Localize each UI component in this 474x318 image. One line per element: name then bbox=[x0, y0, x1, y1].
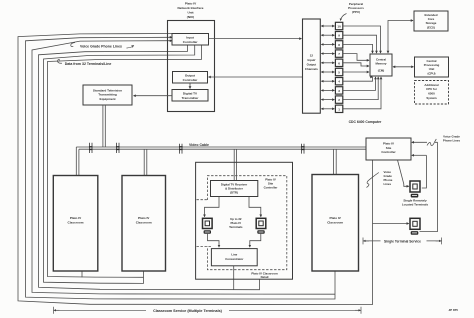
wire phone line 5 (classroom 2 return) bbox=[44, 45, 195, 283]
wire P6 to CM left bbox=[343, 63, 369, 66]
svg-text:Memory: Memory bbox=[375, 62, 386, 66]
squiggle phone line (left of terminals) bbox=[367, 173, 379, 188]
svg-text:CPU for: CPU for bbox=[426, 87, 438, 91]
box 12 input/output channels bbox=[303, 19, 321, 113]
wire IO to P6 bbox=[321, 62, 334, 64]
svg-text:JP 875: JP 875 bbox=[449, 308, 459, 312]
svg-text:System: System bbox=[426, 96, 437, 100]
svg-text:Detail: Detail bbox=[261, 275, 269, 279]
svg-text:3: 3 bbox=[338, 89, 340, 93]
terminal icon right (classroom) bbox=[256, 218, 266, 233]
box classroom detail outer bbox=[196, 162, 293, 279]
wire IO to P9 bbox=[321, 34, 334, 36]
svg-text:Classroom: Classroom bbox=[327, 221, 343, 225]
svg-text:Video Cable: Video Cable bbox=[189, 143, 209, 147]
wire IO to P10 bbox=[321, 25, 334, 27]
node label: Voice Grade Phone Lines (top right) bbox=[443, 135, 461, 143]
svg-text:Transmitter: Transmitter bbox=[182, 96, 200, 100]
node label: JP 875 bbox=[449, 308, 459, 312]
wire DTR to left terminal bbox=[205, 197, 220, 217]
svg-text:(ECS): (ECS) bbox=[427, 26, 435, 30]
terminal icon A (single remote) bbox=[410, 181, 420, 198]
node label: Peripheral Processors (PPU) bbox=[348, 2, 364, 14]
wire cable drop to DTR bbox=[234, 149, 236, 180]
wire IO to P4 bbox=[321, 80, 334, 82]
processor P2 bbox=[335, 96, 342, 103]
svg-text:Plato IV: Plato IV bbox=[70, 216, 82, 220]
svg-text:9: 9 bbox=[338, 34, 340, 38]
box site controller dashed (classroom detail) bbox=[207, 176, 286, 270]
svg-text:Controller: Controller bbox=[183, 78, 199, 82]
box additional CPU for 6500 (dashed) bbox=[415, 81, 449, 105]
wire P5 to CM left bbox=[343, 71, 369, 73]
wire phone line 1 (outermost loop: site controller to NIU input controller) bbox=[18, 34, 373, 305]
svg-text:Classroom Service (Multiple: Classroom Service (Multiple Terminals) bbox=[153, 309, 223, 313]
svg-text:Channels: Channels bbox=[305, 67, 318, 71]
box central memory CM bbox=[370, 54, 392, 76]
wire P3 to CM bottom bbox=[343, 77, 376, 90]
svg-text:Lines: Lines bbox=[384, 182, 392, 186]
wire IO to P2 bbox=[321, 99, 334, 101]
processor P9 bbox=[335, 32, 342, 39]
box digital TV receiver DTR bbox=[211, 181, 258, 197]
box line concentrator bbox=[211, 249, 257, 266]
wire IO to P5 bbox=[321, 71, 334, 73]
wire phone line 2 (classroom 3 return) bbox=[26, 37, 336, 299]
svg-text:Concentrator: Concentrator bbox=[225, 257, 244, 261]
box input controller U1 bbox=[172, 34, 209, 46]
wire TV equipment down to video cable (coax pair) bbox=[103, 105, 105, 147]
svg-text:Plato IV: Plato IV bbox=[185, 2, 197, 6]
wire terminal A return to site controller bbox=[412, 154, 427, 156]
svg-text:(CPU): (CPU) bbox=[427, 72, 435, 76]
wire PPU label arrow bbox=[341, 14, 347, 21]
node label: Up to 32 Plato IV Terminals bbox=[229, 217, 243, 229]
wire CM to ECS bbox=[388, 21, 413, 54]
terminal icon left (classroom) bbox=[203, 218, 213, 233]
svg-text:Unit: Unit bbox=[187, 11, 193, 15]
wire IO channels to output controller bbox=[209, 76, 303, 78]
node label: Single Remotely Located Terminals bbox=[402, 199, 429, 207]
svg-text:Data from 32 Terminals/Line: Data from 32 Terminals/Line bbox=[65, 62, 112, 66]
svg-text:Controller: Controller bbox=[264, 186, 279, 190]
node label: Video Cable bbox=[189, 143, 209, 147]
NIU outer box bbox=[168, 21, 215, 112]
svg-text:2: 2 bbox=[338, 98, 340, 102]
svg-text:(NIU): (NIU) bbox=[187, 15, 194, 19]
box classroom 1 bbox=[53, 176, 98, 272]
processor P5 bbox=[335, 68, 342, 75]
box digital TV transmitter U3 bbox=[172, 90, 208, 102]
processor P1 bbox=[335, 105, 342, 112]
processor P4 bbox=[335, 78, 342, 85]
svg-text:10: 10 bbox=[337, 25, 341, 29]
svg-text:Unit: Unit bbox=[429, 67, 435, 71]
svg-text:Terminals: Terminals bbox=[229, 225, 243, 229]
wire IO to P8 bbox=[321, 43, 334, 45]
svg-text:6: 6 bbox=[338, 61, 340, 65]
box classroom 2 bbox=[122, 176, 166, 272]
svg-text:Plato IV: Plato IV bbox=[330, 216, 342, 220]
box output controller U2 bbox=[173, 72, 208, 84]
svg-text:Located Terminals: Located Terminals bbox=[402, 203, 429, 207]
svg-text:CDC 6400 Computer: CDC 6400 Computer bbox=[349, 120, 382, 124]
svg-text:Network Interface: Network Interface bbox=[178, 6, 204, 10]
wire cable drop to classroom 2 bbox=[144, 149, 147, 175]
processor P8 bbox=[335, 41, 342, 48]
box central processing unit CPU bbox=[415, 57, 449, 77]
box site controller (single terminals) bbox=[366, 138, 411, 160]
svg-text:5: 5 bbox=[338, 71, 340, 75]
svg-text:Phone Lines: Phone Lines bbox=[443, 139, 461, 143]
wire right terminal to line concentrator bbox=[250, 234, 261, 247]
wire IO to P3 bbox=[321, 89, 334, 91]
wire CM to CPU bbox=[393, 66, 414, 68]
svg-text:12: 12 bbox=[310, 54, 314, 58]
wire input controller to IO channels bbox=[209, 38, 302, 40]
terminal icon B (single remote) bbox=[410, 218, 420, 235]
svg-text:Equipment: Equipment bbox=[100, 97, 116, 101]
wire classroom 1 drop bbox=[81, 271, 83, 277]
wire line concentrator drop bbox=[233, 266, 235, 290]
processor P7 bbox=[335, 50, 342, 57]
svg-text:(CM): (CM) bbox=[378, 69, 384, 73]
svg-text:Input/: Input/ bbox=[307, 58, 315, 62]
box extended core storage ECS bbox=[414, 11, 448, 31]
svg-text:8: 8 bbox=[338, 43, 340, 47]
svg-text:6500: 6500 bbox=[428, 92, 435, 96]
node label: Plato IV Site Controller (detail) bbox=[264, 178, 279, 190]
wire left terminal to line concentrator bbox=[208, 234, 220, 247]
svg-text:Classroom: Classroom bbox=[68, 221, 84, 225]
wire cable drop to classroom 1 bbox=[76, 147, 79, 176]
wire site controller to terminal A (diagonal phone line) bbox=[398, 160, 409, 186]
node label: Data from 32 Terminals/Line bbox=[65, 62, 112, 66]
wire phone line 4 (classroom detail return) bbox=[39, 45, 260, 290]
svg-text:Storage: Storage bbox=[426, 21, 437, 25]
node label: Voice Grade Phone Lines (vertical stack) bbox=[384, 170, 393, 186]
wire output controller to digital TV bbox=[189, 83, 191, 89]
processor P10 bbox=[335, 22, 342, 29]
wire DTR to right terminal bbox=[249, 197, 261, 217]
wire terminal B return to site controller (phone line) bbox=[412, 141, 438, 143]
wire P2 to CM bottom bbox=[343, 77, 378, 100]
squiggle phone line (top right) bbox=[427, 139, 436, 146]
svg-text:Classroom: Classroom bbox=[136, 221, 152, 225]
node label: Voice Grade Phone Lines (top left) bbox=[80, 44, 122, 48]
processor P6 bbox=[335, 59, 342, 66]
wire digital TV transmitter to TV equipment bbox=[134, 95, 172, 97]
svg-text:(PPU): (PPU) bbox=[352, 10, 360, 14]
svg-text:Plato IV: Plato IV bbox=[138, 216, 150, 220]
node label: Plato IV Network Interface Unit (NIU) bbox=[178, 2, 204, 20]
wire P7 to CM left bbox=[343, 54, 369, 61]
wire video cable (double line) bbox=[76, 147, 366, 149]
wire cable drop to classroom 3 bbox=[334, 149, 337, 174]
wire P1 to CM bottom bbox=[343, 77, 381, 109]
svg-text:Single Terminal Service: Single Terminal Service bbox=[384, 239, 421, 243]
node label: Plato IV Classroom Detail bbox=[251, 271, 278, 279]
wire P10 to CM top bbox=[343, 26, 381, 53]
node label: CDC 6400 Computer bbox=[349, 120, 382, 124]
wire IO to P7 bbox=[321, 53, 334, 55]
wire IO to P1 bbox=[321, 108, 334, 110]
svg-text:4: 4 bbox=[338, 80, 340, 84]
svg-text:(DTR): (DTR) bbox=[230, 190, 238, 194]
svg-text:Output: Output bbox=[307, 63, 317, 67]
wire P8 to CM top bbox=[343, 44, 373, 53]
wire P9 to CM top bbox=[343, 35, 377, 53]
junction cable taps bbox=[90, 143, 305, 154]
box classroom 3 bbox=[312, 175, 359, 272]
dimension bracket: single terminal service bbox=[363, 238, 442, 245]
box standard television transmitting equipment bbox=[83, 85, 132, 105]
processor P3 bbox=[335, 87, 342, 94]
svg-text:7: 7 bbox=[338, 52, 340, 56]
wire P4 to CM bottom bbox=[343, 77, 373, 81]
svg-text:Voice Grade Phone Lines: Voice Grade Phone Lines bbox=[80, 44, 122, 48]
svg-text:Controller: Controller bbox=[183, 40, 199, 44]
svg-text:Controller: Controller bbox=[381, 150, 396, 154]
wire site controller down to terminal B and bottom return bbox=[373, 223, 409, 225]
wire phone line 6 (classroom 1 return) bbox=[48, 45, 202, 277]
svg-text:1: 1 bbox=[338, 107, 340, 111]
wire phone line 3 (line concentrator return) bbox=[32, 41, 335, 295]
dimension bracket: classroom service bbox=[54, 307, 362, 314]
